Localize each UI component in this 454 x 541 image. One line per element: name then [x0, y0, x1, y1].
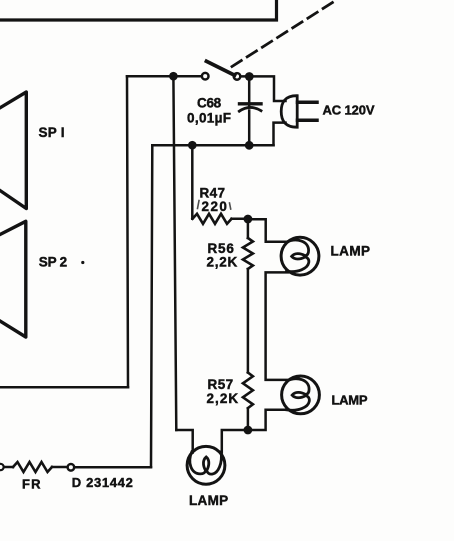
capacitor C68 top plate	[240, 102, 262, 105]
svg-text:2,2K: 2,2K	[207, 391, 239, 406]
wire: terminal to vertical x=152	[74, 466, 151, 469]
wire: lamp PL1 bottom stub / vertical / lamp PL2 top stub	[266, 272, 288, 380]
wire: switch to AC plug (top lead)	[241, 76, 286, 101]
svg-text:SP 2: SP 2	[39, 254, 67, 269]
AC plug P1 body	[281, 96, 297, 128]
capacitor C68 bottom lead	[248, 111, 251, 146]
wire: vertical bus from junction down to bottom lamp branch	[173, 76, 176, 430]
svg-text:AC 120V: AC 120V	[323, 103, 375, 118]
svg-text:FR: FR	[22, 477, 42, 492]
lamp PL1	[281, 237, 319, 275]
dashed mechanical-linkage line to switch	[232, 0, 338, 67]
wire: node to lamp PL1 top stub	[248, 219, 288, 242]
lamp PL3	[187, 446, 225, 484]
capacitor C68 top lead	[248, 77, 251, 107]
resistor R57	[243, 373, 253, 409]
terminal D231442	[68, 464, 75, 471]
wire: R57 bottom lead to junction	[247, 409, 250, 430]
wire: horizontal y=387 to left edge	[0, 386, 128, 389]
speaker SP1 cone	[0, 92, 26, 209]
capacitor C68 bottom plate (curved)	[239, 107, 261, 111]
AC plug prong (bottom)	[298, 118, 318, 122]
wire: horizontal bus y=145	[152, 144, 273, 147]
svg-text:LAMP: LAMP	[332, 392, 368, 407]
stray dot right of SP 2	[81, 261, 84, 264]
wire: junction to lamp PL3 right stub	[222, 430, 248, 453]
node: junction R47/R56 (248,219)	[244, 215, 253, 224]
svg-text:LAMP: LAMP	[331, 243, 372, 258]
AC plug prong (top)	[298, 101, 318, 105]
wire: terminal to FR	[4, 466, 13, 469]
svg-text:D 231442: D 231442	[72, 475, 133, 490]
switch S1 terminal (left)	[202, 73, 209, 80]
wire: vertical x=152 from bus down to FR wire	[151, 145, 152, 467]
stray mark right of 220	[230, 203, 231, 209]
svg-text:SP I: SP I	[39, 125, 65, 140]
fusible resistor FR	[13, 462, 52, 472]
wire: lamp PL2 bottom stub / vertical down / along y=430 to junction	[248, 410, 288, 430]
svg-text:C68: C68	[197, 95, 222, 110]
svg-text:R57: R57	[208, 377, 234, 392]
node: junction at capacitor bottom (249,145)	[245, 141, 254, 150]
switch S1 blade	[207, 61, 235, 75]
partial component box (top)	[0, 0, 277, 20]
speaker SP2 cone	[0, 221, 26, 337]
wire: R47 to node	[232, 218, 249, 221]
node: junction at (248,430)	[244, 426, 253, 435]
resistor R47	[193, 214, 232, 224]
wire: R47 left lead (drop from junction)	[191, 145, 194, 219]
switch S1 terminal (right)	[234, 73, 241, 80]
terminal (left, cut off at edge)	[0, 464, 4, 470]
node: junction right of switch (249,76)	[245, 72, 254, 81]
node: junction at (192,145)	[188, 141, 197, 150]
lamp PL2	[282, 376, 320, 414]
resistor R56	[243, 238, 253, 269]
svg-text:0,01µF: 0,01µF	[187, 111, 231, 126]
wire: R56 bottom to R57 top (vertical x=248)	[247, 269, 250, 373]
svg-text:220: 220	[202, 199, 227, 214]
wire: FR to terminal D231442	[52, 466, 68, 469]
wire: vertical x=127 (top bus corner down)	[127, 76, 128, 387]
wire: bus to AC plug (bottom lead)	[274, 123, 286, 146]
stray mark left of 220	[198, 201, 200, 209]
wire: bottom lamp left lead (bus corner to left stub)	[176, 430, 192, 453]
svg-text:LAMP: LAMP	[189, 493, 229, 508]
wire: R56 top lead	[247, 219, 250, 238]
node: junction at top bus (173,76)	[169, 72, 178, 81]
svg-text:2,2K: 2,2K	[207, 254, 238, 269]
wire: top horizontal (bus corner to switch left terminal)	[127, 75, 202, 78]
